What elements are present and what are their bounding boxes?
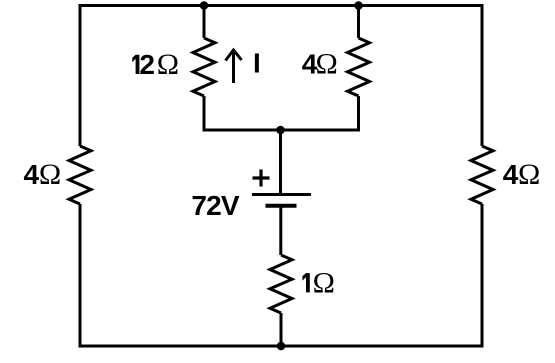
wire right branch top <box>481 4 484 146</box>
wire right branch bottom <box>481 204 484 348</box>
wire 12ohm stem top <box>203 6 206 39</box>
svg-text:Ω: Ω <box>313 266 335 299</box>
svg-text:2: 2 <box>139 49 155 80</box>
svg-text:Ω: Ω <box>157 48 179 81</box>
svg-text:4: 4 <box>24 159 40 190</box>
resistor R-left 4ohm <box>69 146 91 204</box>
label 12 ohm <box>132 55 139 74</box>
wire outer loop <box>80 6 482 347</box>
wire battery bottom <box>279 207 282 255</box>
wire left branch top <box>79 4 82 146</box>
svg-text:Ω: Ω <box>315 47 337 80</box>
svg-text:72V: 72V <box>191 190 240 221</box>
node A top-left junction <box>200 1 209 10</box>
resistor R3 1ohm <box>270 255 292 313</box>
svg-text:Ω: Ω <box>518 158 540 191</box>
wire left branch bottom <box>79 204 82 348</box>
battery V1 72V short plate <box>266 204 297 208</box>
battery V1 72V long plate <box>252 193 311 196</box>
wire 4ohm top stem <box>357 6 360 39</box>
node D bottom junction <box>277 342 286 351</box>
wire 12ohm stem bottom <box>204 96 359 132</box>
resistor R2 4ohm top <box>348 38 370 96</box>
node B top-right junction <box>354 1 363 10</box>
svg-text:4: 4 <box>503 159 519 190</box>
node C middle junction <box>276 126 285 135</box>
current arrow I <box>226 50 242 83</box>
svg-text:Ω: Ω <box>39 158 61 191</box>
svg-text:I: I <box>253 47 261 78</box>
label 1 ohm <box>302 273 309 292</box>
wire battery top <box>279 130 282 193</box>
resistor R1 12ohm <box>193 38 215 96</box>
resistor R-right 4ohm <box>471 146 493 204</box>
wire 4ohm top stem bottom <box>357 96 360 132</box>
wire 1ohm bottom <box>280 313 283 346</box>
battery plus sign <box>253 170 270 187</box>
